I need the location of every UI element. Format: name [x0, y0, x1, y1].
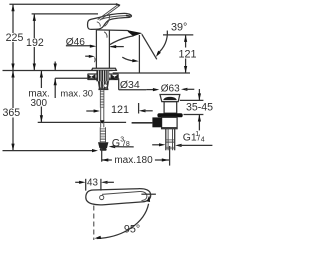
angle arc left: [122, 57, 134, 61]
shank collar circle: [104, 84, 107, 87]
spout top edge: [96, 29, 128, 32]
G1 1/4 arrows: [152, 144, 161, 146]
365 reference line: [3, 150, 96, 152]
95 deg arc: [97, 204, 149, 239]
countertop bottom line (max.30): [55, 77, 112, 79]
svg-text:121: 121: [178, 49, 196, 61]
clip arrow on body: [85, 55, 91, 57]
svg-text:35-45: 35-45: [186, 102, 213, 114]
label max.180: [101, 148, 103, 162]
svg-text:365: 365: [2, 107, 20, 119]
text max.300: [28, 88, 49, 107]
angle arc right: [157, 31, 167, 54]
35-45 bottom extension: [184, 114, 204, 116]
text 192: [26, 38, 44, 47]
svg-text:121: 121: [111, 104, 129, 116]
svg-text:Ø34: Ø34: [120, 79, 140, 91]
svg-text:Ø63: Ø63: [161, 83, 180, 94]
hose end nut: [98, 142, 108, 148]
washer left (x-hatch): [88, 74, 95, 79]
body inner curve: [104, 32, 107, 38]
knob inner curl: [97, 22, 100, 27]
lever handle (down): [88, 13, 132, 29]
dimension max300 line: [40, 71, 42, 123]
dim 121 bottom-right tick and arrow: [138, 103, 140, 114]
dim 43 arrows: [75, 181, 82, 183]
rod housing block: [152, 117, 161, 127]
spout vertical line: [138, 35, 140, 73]
hose end tip: [100, 148, 107, 151]
handle screw hole: [100, 195, 104, 199]
handle inner tip arc: [140, 191, 147, 200]
countertop line: [3, 70, 113, 72]
extension line 225 top: [9, 3, 116, 5]
dimension 225 line: [12, 4, 14, 70]
faucet body column: [95, 30, 97, 69]
hose lower plain: [100, 108, 102, 128]
waste plug flange: [160, 95, 180, 102]
lever rear contour: [105, 15, 110, 26]
stream line: [142, 34, 157, 59]
svg-text:max.180: max.180: [114, 155, 153, 166]
lever tip shading: [126, 15, 131, 17]
spout underside: [109, 36, 133, 45]
hose fitting ribbed: [100, 127, 105, 142]
dashed pivot line: [93, 206, 95, 241]
handle top view outline: [86, 189, 151, 205]
svg-text:43: 43: [87, 177, 98, 188]
mounting nut: [98, 81, 109, 88]
extension line 192 top: [32, 13, 98, 15]
svg-text:max. 30: max. 30: [60, 87, 93, 98]
dim 35-45: [198, 89, 200, 100]
dimension max30 line upper: [54, 62, 56, 71]
label Ø34: [110, 77, 117, 80]
raised lever tip: [115, 3, 120, 6]
35-45 top extension: [180, 99, 204, 101]
faucet base flange: [92, 68, 117, 70]
svg-text:192: 192: [26, 37, 44, 49]
dimension 192 line: [33, 14, 35, 71]
lever raised position: [98, 4, 119, 19]
max300 reference line / rod line: [38, 121, 126, 123]
svg-text:G: G: [112, 137, 120, 149]
svg-text:4: 4: [201, 136, 205, 143]
right 121 top extension line: [163, 34, 193, 36]
svg-text:95°: 95°: [124, 223, 140, 235]
svg-text:39°: 39°: [171, 22, 187, 34]
threaded shank: [96, 71, 109, 82]
pop-up rod: [132, 122, 153, 124]
washer plate lines: [88, 73, 119, 75]
label G3/8: [109, 145, 116, 148]
text 365: [2, 108, 20, 118]
dimension 365 line: [12, 71, 14, 151]
handle inner top line: [102, 192, 140, 195]
dim 43 ticks: [85, 179, 87, 191]
svg-text:225: 225: [6, 32, 24, 44]
dim 121 bottom-left arrow: [86, 110, 96, 112]
washer right (x-hatch): [111, 74, 118, 79]
Ø46 right arrow: [111, 46, 124, 48]
plug neck: [164, 102, 177, 114]
right bottom extension line: [113, 72, 190, 74]
svg-text:8: 8: [126, 141, 130, 148]
label Ø63: [146, 89, 155, 91]
mounting ring (black): [157, 113, 182, 117]
text 225: [5, 33, 24, 42]
tailpipe threads: [166, 140, 175, 149]
hose centerline marker: [100, 120, 104, 124]
dimension max30 line lower: [54, 78, 56, 98]
plug dome seal: [163, 97, 177, 100]
hose braided upper: [100, 87, 104, 107]
dim 121 right: [185, 35, 187, 73]
lever inner contour: [101, 16, 127, 20]
waste body: [162, 117, 178, 128]
lever tip extension line: [141, 193, 156, 195]
svg-text:300: 300: [31, 98, 48, 109]
tailpipe: [165, 129, 167, 151]
spout aerator tip: [128, 30, 143, 36]
